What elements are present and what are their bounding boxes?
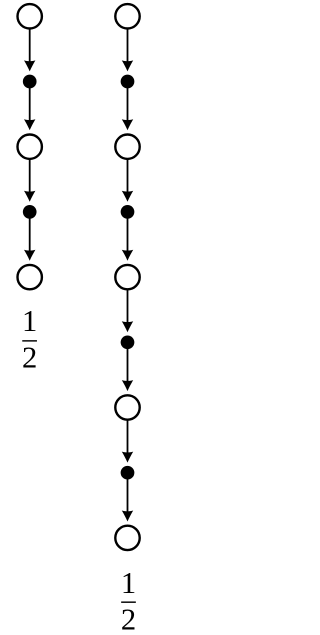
wire: arrow R4 to R5 [122, 214, 133, 261]
svg-text:1: 1 [121, 566, 136, 600]
wire: arrow R2 to R3 [122, 84, 133, 131]
node R5: open circle [115, 265, 139, 289]
label: fraction 1/2 under left chain [22, 304, 37, 375]
wire: arrow L2 to L3 [24, 84, 35, 131]
node L2: filled dot [23, 75, 37, 89]
node L1: open circle [18, 4, 42, 28]
svg-text:2: 2 [121, 602, 136, 635]
node R8: filled dot [121, 466, 135, 480]
wire: arrow R7 to R8 [122, 420, 133, 462]
wire: arrow L3 to L4 [24, 160, 35, 202]
node R7: open circle [115, 395, 139, 419]
wire: arrow R8 to R9 [122, 475, 133, 522]
svg-text:2: 2 [22, 341, 37, 375]
wire: arrow R6 to R7 [122, 344, 133, 391]
node R4: filled dot [121, 205, 135, 219]
wire: arrow L4 to L5 [24, 214, 35, 261]
wire: arrow R3 to R4 [122, 160, 133, 202]
wire: arrow L1 to L2 [24, 29, 35, 71]
node R3: open circle [115, 135, 139, 159]
label: fraction 1/2 under right chain [121, 566, 136, 635]
node L5: open circle [18, 265, 42, 289]
node R1: open circle [115, 4, 139, 28]
node L4: filled dot [23, 205, 37, 219]
wire: arrow R5 to R6 [122, 290, 133, 332]
wire: arrow R1 to R2 [122, 29, 133, 71]
svg-text:1: 1 [22, 304, 37, 338]
node L3: open circle [18, 135, 42, 159]
node R6: filled dot [121, 335, 135, 349]
node R9: open circle [115, 526, 139, 550]
node R2: filled dot [121, 75, 135, 89]
